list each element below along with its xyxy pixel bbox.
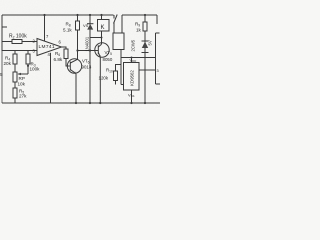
transistor VT6 9013 — [67, 59, 92, 74]
wire switched supply bus — [121, 57, 156, 59]
resistor R6 6.8k — [54, 49, 69, 62]
diode VS 1N4001 — [83, 15, 93, 103]
wire op-amp output — [62, 47, 67, 49]
svg-text:20k: 20k — [4, 61, 12, 66]
svg-text:2CW5: 2CW5 — [131, 39, 136, 51]
wire VT5 emitter to ground — [99, 57, 101, 103]
wire diode to relay branch — [90, 37, 102, 39]
wire relay to VT5 collector — [101, 31, 103, 44]
wire KD9562 output to right — [139, 69, 156, 71]
wire input stub — [2, 26, 7, 28]
node R8 / VT6 collector / VT5 base — [76, 49, 78, 51]
resistor R8 5.1k — [63, 15, 80, 60]
svg-text:VS: VS — [83, 23, 89, 28]
resistor R2 100k — [2, 34, 37, 44]
svg-text:LM741: LM741 — [39, 44, 55, 50]
op-amp U1 LM741 — [37, 39, 62, 56]
pin 4 wire to ground — [48, 52, 51, 103]
zener diode 2CW 5V — [131, 39, 153, 104]
svg-text:10k: 10k — [18, 82, 26, 87]
svg-text:VSS: VSS — [128, 93, 135, 99]
wire left rail lower — [1, 51, 3, 103]
wire R6 to VT6 base — [66, 59, 70, 67]
wire right edge drop — [156, 15, 158, 24]
svg-text:R2 100k: R2 100k — [9, 34, 27, 40]
node diode / base wire — [89, 49, 91, 51]
transistor VT5 8050 — [95, 43, 113, 62]
node relay/diode junction — [101, 37, 103, 39]
wire KD9562 trigger pin — [121, 84, 124, 86]
node pin7 on rail — [43, 14, 45, 16]
wire VT6 emitter to ground — [75, 74, 77, 103]
node KD9562 ground — [130, 102, 132, 104]
wire top rail right — [122, 14, 157, 16]
svg-text:8050: 8050 — [103, 57, 113, 62]
node VT5 emitter ground — [99, 102, 101, 104]
svg-text:1N4001: 1N4001 — [85, 36, 90, 51]
pin 7 supply wire — [45, 15, 50, 41]
svg-text:5: 5 — [0, 72, 3, 77]
svg-text:5V: 5V — [148, 40, 153, 45]
relay coil K — [98, 15, 110, 31]
svg-text:RP: RP — [19, 76, 25, 81]
svg-text:6.8k: 6.8k — [54, 57, 63, 62]
resistor R10 120k — [99, 65, 122, 85]
resistor R5 27k — [13, 82, 27, 103]
svg-text:KD9562: KD9562 — [130, 70, 135, 86]
relay contact K-1 — [114, 15, 118, 34]
node VT6 emitter ground — [75, 102, 77, 104]
svg-text:120k: 120k — [99, 76, 109, 81]
load box (bell) — [113, 33, 124, 50]
potentiometer RP 10k — [13, 66, 28, 87]
svg-text:27k: 27k — [19, 94, 27, 99]
node relay top rail — [100, 14, 102, 16]
wire VT6 collector node to VT5 base — [78, 50, 99, 52]
node vdd stub — [131, 57, 133, 59]
node diode ground — [89, 102, 91, 104]
resistor R3 100k — [26, 51, 40, 72]
wire pin3 reference rail — [2, 50, 37, 52]
resistor R4 20k — [4, 51, 18, 73]
svg-text:1k: 1k — [136, 28, 142, 33]
svg-text:3: 3 — [157, 69, 159, 73]
wire top rail left (+12V) — [2, 14, 114, 16]
node diode top rail — [89, 14, 91, 16]
svg-text:K: K — [101, 25, 105, 31]
wire KD9562 ground pin — [131, 90, 133, 103]
node R9 top rail — [144, 14, 146, 16]
IC U2 KD9562 — [124, 63, 140, 91]
resistor R9 1k — [135, 15, 147, 39]
node R8 top rail — [76, 14, 78, 16]
wire KD9562 vdd stub — [131, 58, 133, 63]
wire left rail — [1, 15, 3, 51]
node R3/RP wiper junction — [27, 65, 29, 67]
svg-text:VDD: VDD — [130, 58, 137, 64]
node zener ground — [144, 102, 146, 104]
wire box bottom branch — [120, 50, 122, 85]
svg-text:5.1k: 5.1k — [63, 28, 72, 33]
wire right edge output device — [156, 33, 161, 84]
wire bottom rail (ground) — [2, 102, 160, 104]
svg-text:100k: 100k — [30, 67, 41, 72]
wire right rail drop — [121, 15, 123, 33]
